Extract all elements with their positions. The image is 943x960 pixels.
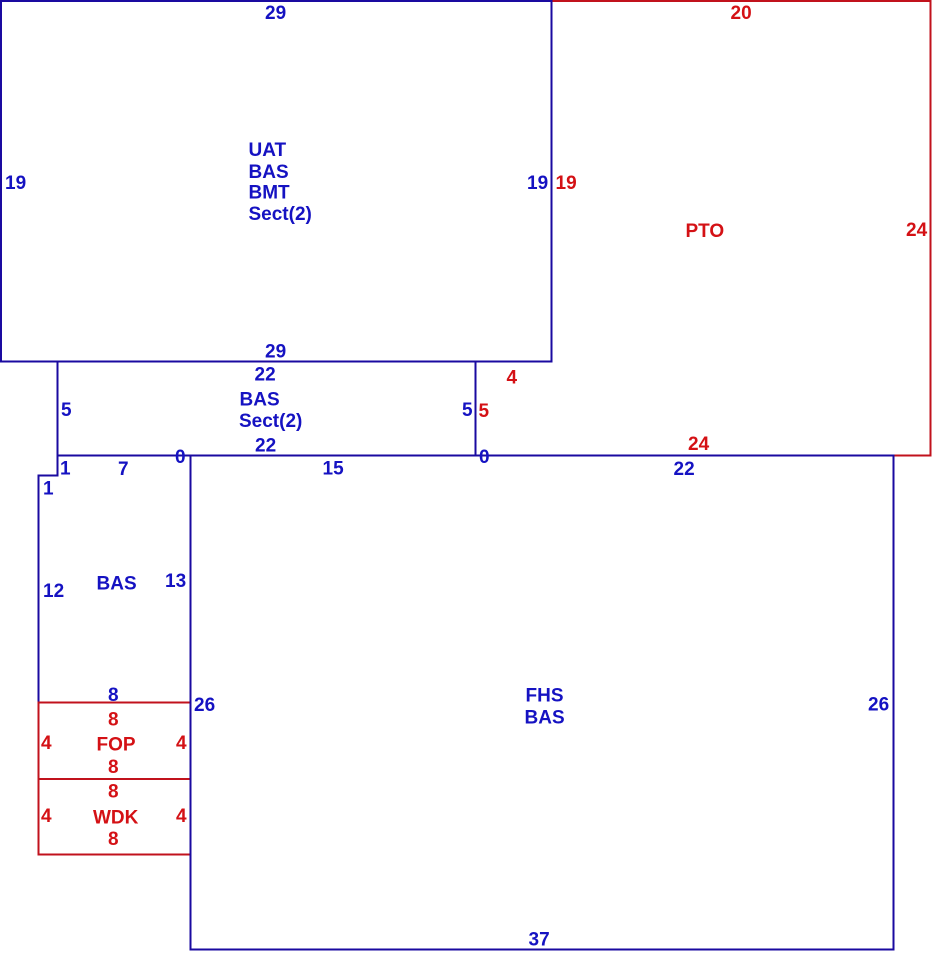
svg-text:26: 26 (868, 695, 889, 716)
svg-text:BAS: BAS (240, 390, 280, 411)
svg-text:24: 24 (688, 434, 710, 455)
area outline BAS lower-left (blue polygon with notch) (39, 456, 191, 703)
svg-text:5: 5 (462, 400, 473, 421)
svg-text:BMT: BMT (249, 183, 291, 204)
area outline FOP (red rectangle) (39, 703, 191, 780)
svg-text:37: 37 (529, 930, 550, 951)
svg-text:0: 0 (479, 447, 490, 468)
svg-text:1: 1 (43, 479, 54, 500)
svg-text:FHS: FHS (526, 686, 564, 707)
svg-text:8: 8 (108, 757, 119, 778)
svg-text:WDK: WDK (93, 808, 139, 829)
svg-text:4: 4 (507, 368, 518, 389)
svg-text:8: 8 (108, 710, 119, 731)
area outline WDK (red rectangle) (39, 779, 191, 855)
svg-text:4: 4 (176, 733, 187, 754)
area outline PTO (red, L-shaped) (476, 1, 931, 456)
svg-text:19: 19 (5, 173, 26, 194)
svg-text:PTO: PTO (686, 221, 725, 242)
svg-text:26: 26 (194, 695, 215, 716)
svg-text:12: 12 (43, 581, 64, 602)
svg-text:BAS: BAS (525, 708, 565, 729)
svg-text:Sect(2): Sect(2) (249, 204, 312, 225)
svg-text:29: 29 (265, 3, 286, 24)
svg-text:29: 29 (265, 342, 286, 363)
svg-text:22: 22 (255, 436, 276, 457)
svg-text:22: 22 (255, 365, 276, 386)
svg-text:24: 24 (906, 220, 928, 241)
svg-text:4: 4 (41, 733, 52, 754)
svg-text:Sect(2): Sect(2) (239, 411, 302, 432)
svg-text:7: 7 (118, 459, 129, 480)
svg-text:8: 8 (108, 685, 119, 706)
svg-text:BAS: BAS (249, 162, 289, 183)
svg-text:5: 5 (61, 400, 72, 421)
svg-text:8: 8 (108, 782, 119, 803)
svg-text:20: 20 (731, 3, 752, 24)
svg-text:5: 5 (479, 401, 490, 422)
svg-text:BAS: BAS (97, 574, 137, 595)
area outline BAS Sect(2) (blue rectangle) (58, 362, 476, 456)
svg-text:19: 19 (527, 173, 548, 194)
svg-text:22: 22 (674, 459, 695, 480)
svg-text:0: 0 (175, 447, 186, 468)
svg-text:15: 15 (323, 459, 345, 480)
svg-text:4: 4 (41, 806, 52, 827)
svg-text:UAT: UAT (249, 140, 287, 161)
svg-text:1: 1 (60, 459, 71, 480)
svg-text:13: 13 (165, 571, 186, 592)
svg-text:8: 8 (108, 829, 119, 850)
svg-text:FOP: FOP (97, 735, 136, 756)
area outline UAT/BAS/BMT Sect(2) (blue rectangle) (1, 1, 552, 362)
svg-text:19: 19 (556, 173, 577, 194)
area outline FHS/BAS (blue rectangle) (191, 456, 894, 950)
svg-text:4: 4 (176, 806, 187, 827)
